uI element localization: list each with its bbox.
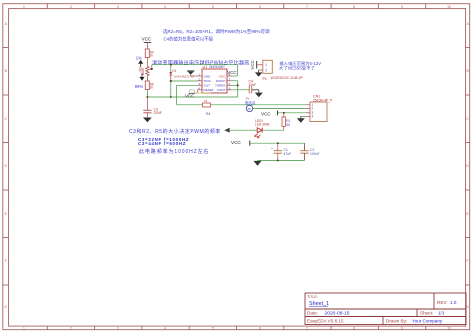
svg-text:RESET: RESET	[204, 88, 214, 92]
svg-text:2: 2	[265, 69, 267, 73]
svg-text:R4: R4	[206, 112, 210, 116]
svg-text:U1: U1	[203, 65, 208, 69]
svg-text:VCC: VCC	[219, 74, 226, 78]
resistor R5	[282, 113, 291, 130]
svg-text:+: +	[271, 147, 273, 151]
svg-text:2020-08-15: 2020-08-15	[325, 311, 350, 317]
svg-text:6: 6	[259, 326, 261, 330]
svg-text:G: G	[466, 305, 469, 309]
arrow down marker	[139, 73, 144, 81]
connector CN1	[306, 95, 333, 122]
svg-text:7: 7	[306, 326, 308, 330]
svg-text:Sheet:: Sheet:	[420, 311, 433, 316]
svg-text:THRES: THRES	[215, 84, 226, 88]
svg-text:EasyEDA V5.6.15: EasyEDA V5.6.15	[307, 319, 344, 324]
svg-text:1.0: 1.0	[450, 300, 457, 305]
svg-text:此电路频率为1000HZ左右: 此电路频率为1000HZ左右	[139, 148, 209, 155]
svg-text:VCC: VCC	[185, 94, 194, 99]
wire node to C3	[146, 97, 148, 110]
wire diode node down to bus97	[170, 81, 172, 97]
wire bus97	[147, 96, 237, 98]
wire DISCH/THRES	[232, 81, 239, 97]
svg-text:2: 2	[312, 107, 314, 111]
svg-text:47uF: 47uF	[284, 152, 292, 156]
LED LED1	[255, 119, 270, 138]
svg-text:G: G	[4, 305, 7, 309]
svg-text:Your Company: Your Company	[412, 319, 443, 324]
svg-text:P1: P1	[263, 77, 267, 81]
IC U1 NE555P	[198, 65, 232, 93]
power flag VCC decoupling rail	[231, 140, 305, 146]
svg-text:VCC: VCC	[227, 70, 236, 75]
svg-text:C3和R2、R5的大小决定PWM的频率: C3和R2、R5的大小决定PWM的频率	[129, 128, 221, 135]
svg-text:10: 10	[447, 326, 451, 330]
potentiometer R2	[138, 66, 152, 76]
svg-text:10nF: 10nF	[249, 83, 257, 87]
svg-text:C4的值为任意值可以不接: C4的值为任意值可以不接	[164, 36, 214, 43]
wire CONT to C4	[232, 89, 250, 91]
resistor R4 output (horizontal)	[203, 99, 307, 116]
svg-text:F: F	[467, 259, 469, 263]
svg-text:1: 1	[23, 5, 25, 9]
ground at CN1 pin4	[297, 116, 306, 122]
svg-text:TP: TP	[247, 107, 251, 111]
svg-text:3: 3	[117, 326, 119, 330]
svg-text:1k: 1k	[150, 86, 154, 90]
node junction R6/C3/bus	[146, 96, 148, 98]
wire OUT	[177, 85, 203, 105]
resistor R4	[145, 49, 154, 67]
svg-text:OUT: OUT	[204, 84, 211, 88]
svg-text:滑动变阻器输出电压越低PWM占空比越高: 滑动变阻器输出电压越低PWM占空比越高	[152, 60, 250, 67]
svg-text:99%: 99%	[135, 84, 144, 89]
svg-text:选R2=R5，R2=100×R1，调时PWM为1%至99%可: 选R2=R5，R2=100×R1，调时PWM为1%至99%可调	[163, 28, 270, 35]
label 99%	[135, 84, 144, 89]
svg-text:6: 6	[259, 5, 261, 9]
svg-text:VCC: VCC	[250, 60, 255, 69]
node TRIG junction	[170, 80, 172, 82]
svg-text:2: 2	[70, 326, 72, 330]
svg-text:LED-3MM: LED-3MM	[255, 123, 270, 127]
ground below C3	[143, 118, 152, 123]
svg-text:Drawn By:: Drawn By:	[386, 319, 407, 324]
wire R6 to C3 node	[146, 90, 148, 98]
capacitor C3	[143, 108, 161, 118]
node diode branch on bus	[170, 64, 172, 66]
title block	[305, 293, 466, 325]
svg-text:5: 5	[212, 5, 214, 9]
svg-text:2: 2	[70, 5, 72, 9]
svg-text:4: 4	[164, 326, 166, 330]
svg-text:VCC: VCC	[231, 140, 241, 145]
svg-text:Date:: Date:	[307, 311, 318, 316]
power flag VCC (left)	[142, 36, 152, 49]
wire pot to R6	[146, 76, 148, 81]
svg-text:VCC: VCC	[142, 36, 152, 41]
svg-text:9: 9	[401, 5, 403, 9]
svg-text:CONT: CONT	[217, 88, 226, 92]
svg-text:4: 4	[312, 115, 314, 119]
power flag VCC for P1	[250, 60, 263, 69]
test point Fr	[245, 97, 306, 112]
arrow up marker	[138, 60, 143, 67]
svg-text:1: 1	[23, 326, 25, 330]
svg-text:1: 1	[265, 63, 267, 67]
ground at IC GND pin	[187, 71, 198, 76]
svg-text:TITLE:: TITLE:	[307, 295, 318, 299]
svg-text:100nF: 100nF	[310, 152, 320, 156]
power flag VCC for CN1	[261, 111, 306, 117]
diode D1	[169, 69, 194, 81]
wire VCC pin to bus	[227, 65, 237, 76]
svg-text:1/1: 1/1	[438, 311, 445, 316]
net arrow flag (left of LED)	[224, 128, 229, 133]
svg-text:4: 4	[164, 5, 166, 9]
label 1%	[136, 56, 142, 61]
svg-text:NE555P: NE555P	[210, 65, 226, 69]
svg-text:WJ2EDGVC-5.08-2P: WJ2EDGVC-5.08-2P	[271, 76, 304, 80]
annotation note right	[279, 60, 321, 72]
wire LED line	[230, 129, 284, 131]
svg-text:F: F	[5, 259, 7, 263]
svg-text:2510R-4P_P: 2510R-4P_P	[313, 98, 333, 102]
node bus97 junction	[170, 96, 172, 98]
ground below P1	[255, 70, 262, 77]
ground decoupling	[254, 161, 262, 166]
capacitor C2	[300, 143, 319, 160]
power flag VCC at RESET	[185, 90, 211, 99]
svg-text:VCC: VCC	[261, 111, 271, 116]
annotation note middle	[152, 60, 250, 67]
ground after C4	[252, 90, 263, 98]
svg-text:100K: 100K	[141, 67, 145, 75]
wire bus down to diode	[170, 65, 172, 72]
svg-text:8: 8	[353, 326, 355, 330]
svg-text:22NF: 22NF	[154, 111, 162, 115]
svg-text:REV:: REV:	[437, 300, 448, 305]
svg-text:C3=44NF f=500HZ: C3=44NF f=500HZ	[138, 141, 186, 146]
resistor R6	[145, 81, 154, 90]
svg-text:8: 8	[353, 5, 355, 9]
connector P1	[259, 60, 304, 81]
wire TRIG	[171, 80, 198, 82]
svg-text:1%: 1%	[136, 56, 142, 61]
capacitor C1	[271, 142, 291, 161]
capacitor C4	[249, 79, 257, 93]
svg-text:GND: GND	[204, 74, 212, 78]
svg-text:TRIG: TRIG	[204, 79, 212, 83]
wire bus pot-wiper to VCC pin riser	[151, 65, 238, 70]
annotation note bottom	[129, 128, 221, 155]
svg-text:DISCH: DISCH	[216, 79, 226, 83]
svg-text:大了NE555受不了: 大了NE555受不了	[279, 65, 315, 72]
svg-text:9: 9	[401, 326, 403, 330]
svg-text:D1: D1	[172, 69, 176, 73]
wire decoupling bottom rail	[258, 143, 305, 160]
svg-text:测试点: 测试点	[245, 100, 256, 105]
annotation note top	[163, 28, 270, 43]
svg-text:7: 7	[306, 5, 308, 9]
svg-text:3: 3	[117, 5, 119, 9]
svg-text:5: 5	[212, 326, 214, 330]
svg-text:10: 10	[447, 5, 451, 9]
svg-text:1k: 1k	[150, 54, 154, 58]
